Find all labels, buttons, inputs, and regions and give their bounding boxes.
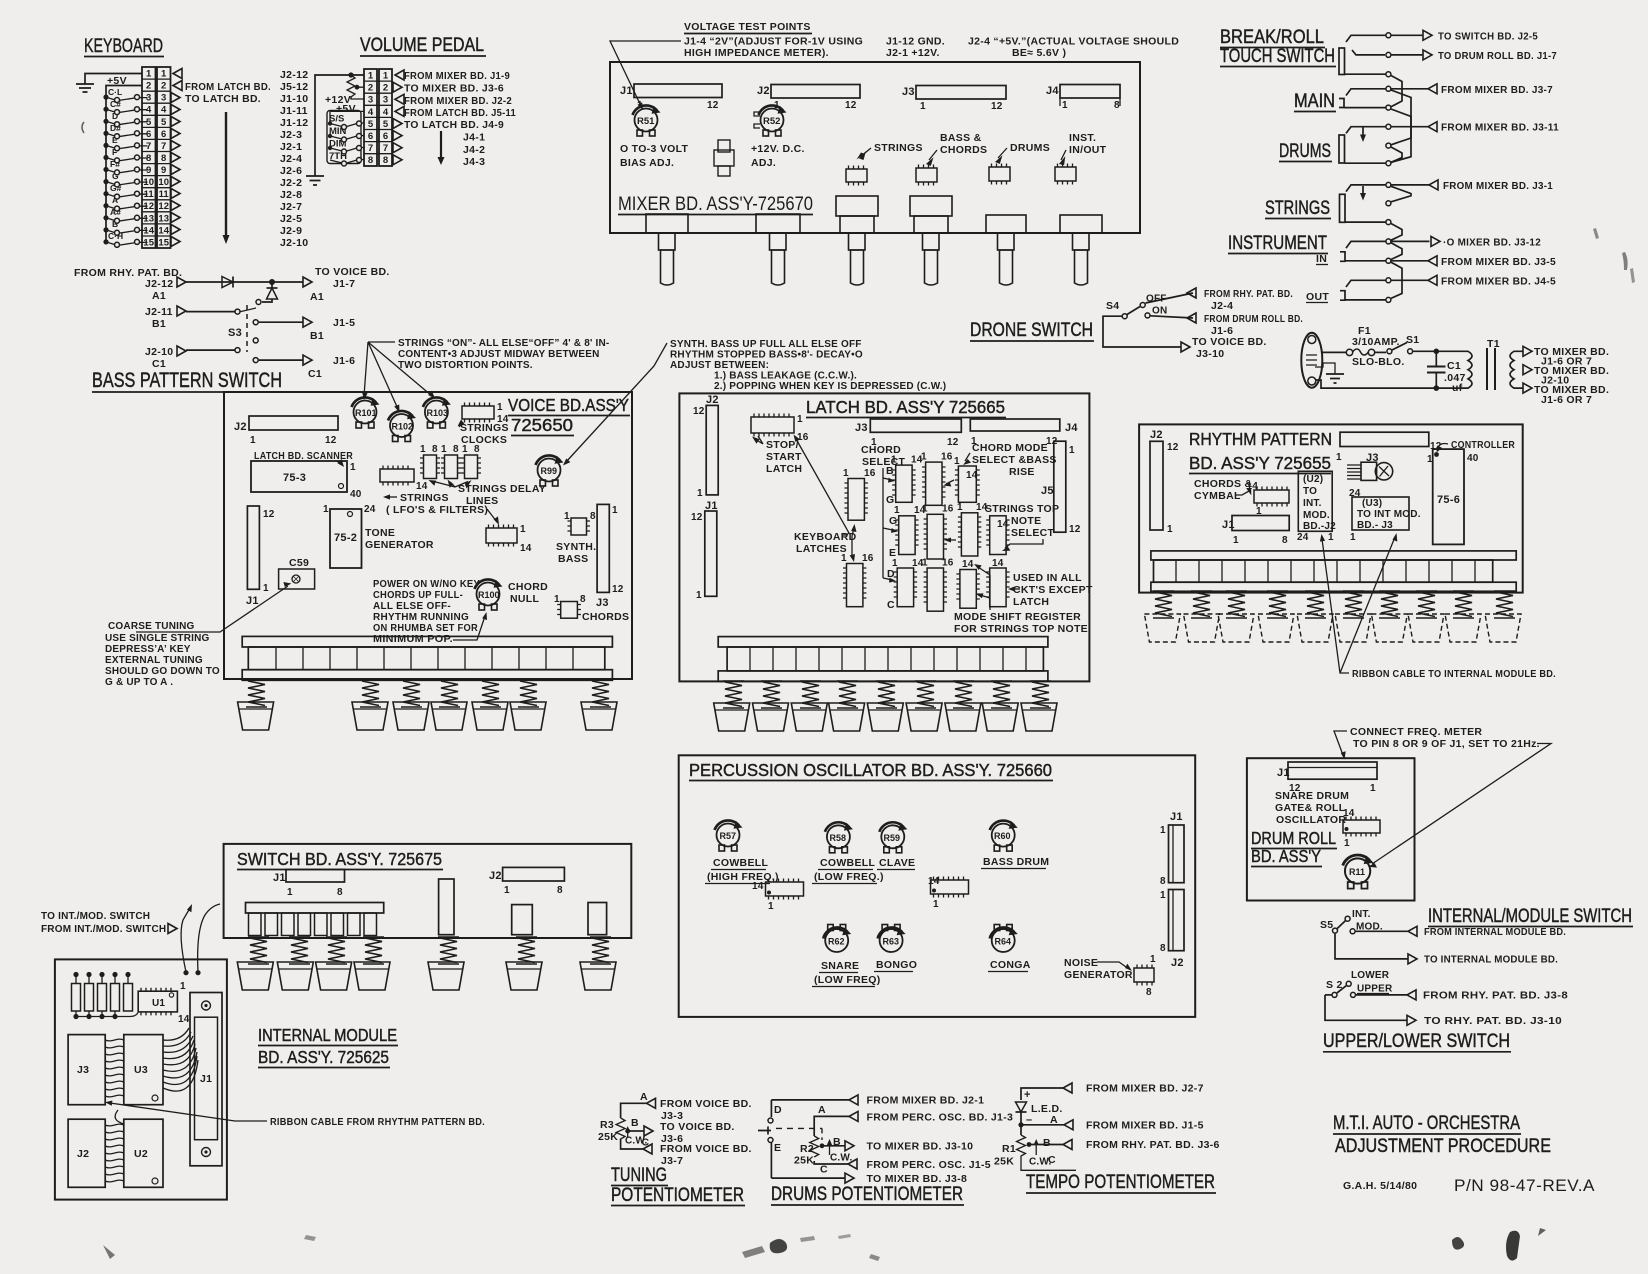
svg-text:8: 8 <box>368 155 373 166</box>
voice board title <box>508 395 630 436</box>
percussion oscillator board outline <box>679 755 1195 1017</box>
svg-text:15: 15 <box>158 237 169 248</box>
chord select IC G/E <box>889 505 926 559</box>
svg-text:12: 12 <box>693 406 705 417</box>
strings top note IC b <box>986 516 1009 555</box>
svg-text:14: 14 <box>158 225 169 236</box>
svg-text:J2-10: J2-10 <box>145 346 173 358</box>
used in all ckts IC b <box>986 558 1009 607</box>
jack row arrows <box>1423 30 1440 285</box>
switch S1 <box>1387 334 1436 354</box>
U2 ribbon box <box>1297 471 1336 543</box>
chord select IC B/G <box>886 455 923 507</box>
CHORDS & CYMBAL label <box>1194 478 1255 502</box>
J3 connector block <box>68 1035 105 1105</box>
svg-text:A1: A1 <box>310 291 324 303</box>
svg-text:ADJUSTMENT PROCEDURE: ADJUSTMENT PROCEDURE <box>1335 1136 1551 1157</box>
instrument jacks <box>1228 233 1345 303</box>
potentiometer +12V on volume pedal <box>325 75 364 106</box>
drum roll IC <box>1343 808 1380 849</box>
svg-text:J2: J2 <box>489 870 502 882</box>
svg-text:9: 9 <box>161 165 166 176</box>
svg-text:1: 1 <box>1427 454 1433 465</box>
BREAK/ROLL TOUCH SWITCH titles <box>1220 27 1336 67</box>
mixer board title <box>618 194 813 215</box>
svg-text:LOWER: LOWER <box>1351 970 1390 981</box>
DRUMS POTENTIOMETER title <box>771 1184 964 1205</box>
svg-text:G.A.H. 5/14/80: G.A.H. 5/14/80 <box>1343 1180 1417 1192</box>
75-3 chip <box>251 461 362 500</box>
svg-text:J3: J3 <box>855 422 868 434</box>
leader stop/start to keyboard latch IC <box>794 435 850 536</box>
switch S2 <box>1325 970 1393 997</box>
CHORD MODE SELECT & BASS RISE label <box>963 442 1057 478</box>
KEYBOARD section title <box>84 36 164 57</box>
svg-text:MOD.: MOD. <box>1303 510 1330 521</box>
svg-text:J3-10: J3-10 <box>1196 348 1224 360</box>
svg-text:TO MIXER BD. J3-6: TO MIXER BD. J3-6 <box>404 83 504 95</box>
svg-text:FROM PERC. OSC. BD. J1-3: FROM PERC. OSC. BD. J1-3 <box>867 1112 1014 1124</box>
svg-text:RISE: RISE <box>1009 466 1035 478</box>
svg-text:FROM MIXER BD. J3-1: FROM MIXER BD. J3-1 <box>1443 180 1553 192</box>
svg-text:12: 12 <box>1430 441 1442 452</box>
svg-text:BONGO: BONGO <box>876 959 917 971</box>
leader from coarse tuning note to C59 <box>136 582 292 632</box>
trimmer R63 <box>878 925 906 953</box>
latch board feet <box>714 703 1057 731</box>
svg-text:1.) BASS LEAKAGE (C.C.W.).: 1.) BASS LEAKAGE (C.C.W.). <box>714 371 857 382</box>
svg-text:CYMBAL: CYMBAL <box>1194 490 1241 502</box>
keyboard row labels <box>185 69 308 249</box>
svg-text:FROM RHY. PAT. BD.: FROM RHY. PAT. BD. <box>1204 288 1293 300</box>
svg-text:BASS: BASS <box>558 553 588 565</box>
BASS & CHORDS IC label <box>926 132 987 166</box>
svg-text:J5-12: J5-12 <box>280 81 308 93</box>
rhythm board title <box>1189 429 1332 474</box>
diode D (series, A1 line) <box>222 277 233 288</box>
svg-text:SNARE: SNARE <box>821 960 859 972</box>
svg-text:14: 14 <box>962 559 974 570</box>
svg-text:POTENTIOMETER: POTENTIOMETER <box>611 1185 744 1206</box>
LFO FILTER IC (center) <box>486 524 532 554</box>
svg-text:FROM MIXER BD. J3-11: FROM MIXER BD. J3-11 <box>1441 122 1559 134</box>
break/roll jack <box>1339 48 1345 75</box>
svg-text:12: 12 <box>991 101 1003 112</box>
STOP/START LATCH IC <box>751 414 809 444</box>
jack contact circles <box>1386 33 1391 303</box>
tempo pot R1 <box>994 1135 1220 1170</box>
SNARE LOW FREQ label <box>812 960 881 987</box>
svg-text:B1: B1 <box>152 318 166 330</box>
svg-text:A: A <box>640 1091 648 1103</box>
TEMPO POTENTIOMETER title <box>1026 1172 1216 1193</box>
svg-text:1: 1 <box>891 455 897 466</box>
svg-text:40: 40 <box>350 489 362 500</box>
svg-text:12: 12 <box>158 201 169 212</box>
mode shift IC 2 (middle col) <box>922 504 954 560</box>
svg-text:FOR STRINGS TOP NOTE: FOR STRINGS TOP NOTE <box>954 623 1088 635</box>
latch connector J1 <box>691 500 718 601</box>
svg-text:J2-4 “+5V.”(ACTUAL VOLTAGE: J2-4 “+5V.”(ACTUAL VOLTAGE SHOULD <box>968 36 1179 48</box>
svg-text:16: 16 <box>862 553 874 564</box>
svg-text:BD. ASS'Y: BD. ASS'Y <box>1251 846 1321 866</box>
LED junction <box>1018 1112 1203 1135</box>
drums pot top wire <box>771 1099 849 1101</box>
svg-text:8: 8 <box>432 444 438 455</box>
svg-text:INT.: INT. <box>1352 909 1371 920</box>
svg-text:J4-3: J4-3 <box>463 156 485 168</box>
svg-text:BD. ASS'Y 725655: BD. ASS'Y 725655 <box>1189 453 1331 473</box>
ribbon cable note <box>1320 533 1556 680</box>
slider pot 3 <box>836 196 878 285</box>
svg-text:BD. ASS'Y. 725625: BD. ASS'Y. 725625 <box>258 1047 389 1067</box>
volume pedal connector (two columns, 8 pins) <box>364 69 392 166</box>
svg-text:1: 1 <box>554 594 560 605</box>
transformer T1 <box>1454 338 1528 390</box>
svg-text:TWO DISTORTION POINTS.: TWO DISTORTION POINTS. <box>398 360 533 371</box>
S3 middle contact <box>253 338 258 343</box>
svg-text:CHORD MODE: CHORD MODE <box>972 442 1048 454</box>
svg-text:12: 12 <box>707 100 719 111</box>
perc IC 2 <box>928 876 969 910</box>
drum roll board outline <box>1247 758 1415 900</box>
svg-text:11: 11 <box>159 189 170 200</box>
strings jack <box>1265 194 1345 222</box>
svg-text:R99: R99 <box>541 466 558 476</box>
svg-text:16: 16 <box>942 504 954 515</box>
svg-text:( LFO'S & FILTERS): ( LFO'S & FILTERS) <box>386 504 488 516</box>
svg-text:J2-6: J2-6 <box>280 165 302 177</box>
keyboard latch IC 1 <box>843 468 876 520</box>
top power wire to transformer <box>1436 350 1454 352</box>
S5 to FROM INTERNAL MODULE BD <box>1356 926 1566 938</box>
svg-text:J2-11: J2-11 <box>145 306 173 318</box>
wire A1 <box>186 281 303 283</box>
svg-text:8: 8 <box>1114 100 1120 111</box>
svg-text:12: 12 <box>1167 442 1179 453</box>
svg-text:C59: C59 <box>289 557 309 569</box>
junction dots on power rail <box>1434 349 1440 355</box>
svg-text:1: 1 <box>504 885 510 896</box>
svg-text:1: 1 <box>287 887 293 898</box>
noise generator IC <box>1134 954 1156 998</box>
switch plunger tall <box>439 879 454 935</box>
svg-text:NULL: NULL <box>510 593 539 605</box>
svg-text:1: 1 <box>1150 954 1156 965</box>
chord mode IC <box>954 456 980 502</box>
svg-text:1: 1 <box>1167 524 1173 535</box>
voice board mounting rail <box>242 636 612 680</box>
svg-text:CONGA: CONGA <box>990 959 1031 971</box>
svg-text:DRUMS POTENTIOMETER: DRUMS POTENTIOMETER <box>771 1184 963 1205</box>
svg-text:FROM MIXER BD. J2-1: FROM MIXER BD. J2-1 <box>867 1095 985 1107</box>
slider pot 5 <box>986 215 1026 285</box>
svg-text:BIAS ADJ.: BIAS ADJ. <box>620 157 674 169</box>
switch bd connector J2 <box>489 867 564 896</box>
svg-text:J3: J3 <box>596 597 609 609</box>
svg-text:EXTERNAL TUNING: EXTERNAL TUNING <box>105 655 203 666</box>
drone output arrow to voice bd <box>1181 336 1267 360</box>
svg-text:1: 1 <box>180 981 186 992</box>
DRONE SWITCH title <box>970 320 1094 341</box>
svg-text:1: 1 <box>933 899 939 910</box>
svg-text:RIBBON CABLE FROM RHYTHM PATTE: RIBBON CABLE FROM RHYTHM PATTERN BD. <box>270 1116 485 1128</box>
vertical diode to switch <box>256 282 278 305</box>
svg-text:IN/OUT: IN/OUT <box>1069 144 1107 156</box>
drum roll connector J1 <box>1277 762 1377 794</box>
svg-text:MODE SHIFT REGISTER: MODE SHIFT REGISTER <box>954 611 1081 623</box>
J2 connector block <box>68 1119 105 1187</box>
svg-text:G: G <box>889 515 897 527</box>
svg-text:TOUCH SWITCH: TOUCH SWITCH <box>1220 46 1335 67</box>
svg-text:J1: J1 <box>273 872 286 884</box>
svg-text:FROM VOICE BD.: FROM VOICE BD. <box>660 1143 752 1155</box>
trimmer R64 <box>990 925 1018 953</box>
svg-text:TUNING: TUNING <box>611 1165 667 1186</box>
COARSE TUNING note <box>105 621 220 688</box>
small trimmer part between R51 and R52 <box>714 140 734 176</box>
int/mod switch wires labels <box>41 904 220 975</box>
MODE SHIFT REGISTER label <box>954 564 1088 635</box>
switch S4 <box>1106 294 1167 319</box>
INST IN/OUT IC label <box>1059 132 1107 165</box>
jack normalling bus <box>1391 76 1411 299</box>
svg-text:FROM RHY. PAT. BD. J3-6: FROM RHY. PAT. BD. J3-6 <box>1086 1139 1220 1151</box>
svg-text:6: 6 <box>368 131 373 142</box>
svg-text:DRUMS: DRUMS <box>1010 142 1050 154</box>
mode shift IC 1 (middle col) <box>921 452 953 506</box>
svg-text:1: 1 <box>1160 890 1166 901</box>
svg-text:12: 12 <box>263 509 275 520</box>
svg-text:R51: R51 <box>637 116 655 127</box>
svg-text:8: 8 <box>383 155 388 166</box>
svg-text:J2: J2 <box>77 1148 89 1160</box>
svg-text:1: 1 <box>612 505 618 516</box>
svg-text:VOLTAGE TEST POINTS: VOLTAGE TEST POINTS <box>684 21 811 33</box>
svg-text:TO PIN 8 OR 9 OF J1, SET TO: TO PIN 8 OR 9 OF J1, SET TO 21Hz. <box>1353 738 1540 750</box>
ground under volume pedal bus <box>306 176 324 185</box>
svg-text:R60: R60 <box>994 831 1011 841</box>
perc IC 1 <box>752 879 804 913</box>
svg-text:VOICE BD.ASS'Y: VOICE BD.ASS'Y <box>508 395 629 415</box>
switch bd connector J1 <box>273 870 345 899</box>
UPPER/LOWER SWITCH title <box>1323 1031 1511 1052</box>
ribbon J3-U3 <box>105 1039 124 1097</box>
svg-text:75-2: 75-2 <box>334 532 357 544</box>
svg-text:13: 13 <box>158 213 169 224</box>
svg-text:GENERATOR: GENERATOR <box>365 539 434 551</box>
svg-text:B: B <box>1043 1137 1051 1149</box>
svg-text:J2: J2 <box>1171 957 1184 969</box>
svg-text:1: 1 <box>1336 452 1342 463</box>
svg-text:12: 12 <box>691 512 703 523</box>
leader minimum pop to R100 <box>453 612 487 640</box>
svg-text:U2: U2 <box>134 1148 148 1160</box>
drawing credits <box>1343 1176 1595 1195</box>
slider pot 2 <box>756 214 800 285</box>
ribbon cable from rhythm pattern note <box>105 1101 485 1129</box>
svg-text:1: 1 <box>1160 825 1166 836</box>
svg-text:G & UP TO A .: G & UP TO A . <box>105 677 173 688</box>
svg-text:+: + <box>1024 1089 1031 1101</box>
svg-text:INSTRUMENT: INSTRUMENT <box>1228 233 1327 254</box>
svg-text:J1: J1 <box>246 595 259 607</box>
svg-text:R62: R62 <box>828 937 845 947</box>
trimmer R52 <box>754 105 787 136</box>
svg-text:25K: 25K <box>598 1131 618 1143</box>
svg-text:8: 8 <box>1160 876 1166 887</box>
volume pedal switch block S/S MIN DIM 7TH <box>327 111 364 167</box>
svg-text:1: 1 <box>497 402 503 413</box>
svg-text:J2-4: J2-4 <box>1211 300 1233 312</box>
svg-text:2: 2 <box>161 81 166 92</box>
trimmer R99 <box>536 455 564 486</box>
svg-text:16: 16 <box>942 558 954 569</box>
svg-text:12: 12 <box>845 100 857 111</box>
svg-text:BASS &: BASS & <box>940 132 982 144</box>
volume pedal left bus wire <box>315 72 364 176</box>
node A1 output arrow <box>303 277 312 287</box>
svg-text:SELECT &BASS: SELECT &BASS <box>972 454 1057 466</box>
svg-text:FROM MIXER BD. J1-5: FROM MIXER BD. J1-5 <box>1086 1120 1204 1132</box>
svg-text:725650: 725650 <box>511 415 573 435</box>
svg-text:8: 8 <box>474 444 480 455</box>
CHORD SELECT label <box>861 444 906 583</box>
svg-text:FROM MIXER BD. J3-7: FROM MIXER BD. J3-7 <box>1441 84 1553 96</box>
svg-text:CONTENT•3 ADJUST MIDWAY BETWEE: CONTENT•3 ADJUST MIDWAY BETWEEN <box>398 349 600 360</box>
slider pot 1 <box>646 214 688 285</box>
svg-text:C.W.: C.W. <box>830 1153 852 1164</box>
svg-text:R63: R63 <box>883 937 900 947</box>
svg-text:1: 1 <box>843 468 849 479</box>
svg-text:INT.: INT. <box>1303 498 1322 509</box>
trimmer R62 <box>823 925 851 953</box>
svg-text:1: 1 <box>921 452 927 463</box>
svg-text:TO SWITCH BD. J2-5: TO SWITCH BD. J2-5 <box>1438 31 1538 43</box>
svg-text:MAIN: MAIN <box>1294 91 1335 112</box>
svg-text:TO: TO <box>1303 486 1317 497</box>
rhythm board mounting rail <box>1151 551 1516 591</box>
voice connector J1 <box>246 506 275 607</box>
svg-text:14: 14 <box>752 881 764 892</box>
rhythm pattern board outline <box>1139 424 1523 592</box>
chord select IC D/C <box>887 558 924 611</box>
S2 common to TO RHY PAT BD J3-10 <box>1325 995 1562 1027</box>
svg-text:1: 1 <box>368 71 374 82</box>
svg-text:75-6: 75-6 <box>1437 494 1460 506</box>
svg-text:J1-12 GND.: J1-12 GND. <box>886 36 945 48</box>
svg-text:J1: J1 <box>200 1073 212 1085</box>
TEMPO pot top wire <box>1021 1083 1204 1102</box>
svg-text:S1: S1 <box>1406 334 1419 346</box>
voice connector J2 <box>234 416 338 446</box>
svg-text:J2-5: J2-5 <box>280 213 302 225</box>
STRINGS IC (mixer) <box>846 166 867 186</box>
svg-text:TO INTERNAL MODULE BD.: TO INTERNAL MODULE BD. <box>1424 955 1558 966</box>
svg-text:INST.: INST. <box>1069 132 1096 144</box>
svg-text:TONE: TONE <box>365 527 395 539</box>
svg-text:8: 8 <box>1282 535 1288 546</box>
svg-text:BD.-J2: BD.-J2 <box>1303 521 1336 532</box>
bias adj labels <box>620 143 805 169</box>
svg-text:TO VOICE BD.: TO VOICE BD. <box>315 266 390 278</box>
svg-text:·O MIXER BD. J3-12: ·O MIXER BD. J3-12 <box>1443 237 1541 249</box>
svg-text:HIGH IMPEDANCE METER).: HIGH IMPEDANCE METER). <box>684 47 829 59</box>
snare drum gate label <box>1275 790 1349 826</box>
svg-text:ON: ON <box>1152 306 1167 317</box>
rhythm board feet (dashed) <box>1144 614 1521 642</box>
svg-text:R52: R52 <box>763 116 780 127</box>
svg-text:R1: R1 <box>1002 1143 1016 1155</box>
slider pot 4 <box>910 196 952 285</box>
STRINGS IC label <box>857 142 923 160</box>
STRINGS TOP NOTE SELECT label <box>985 503 1059 551</box>
svg-text:SELECT: SELECT <box>1011 527 1055 539</box>
svg-text:3: 3 <box>161 93 166 104</box>
svg-text:1: 1 <box>1344 838 1350 849</box>
junction on A1 line <box>269 279 275 285</box>
ground from plug <box>1315 363 1344 383</box>
fuse F1 <box>1322 325 1405 368</box>
svg-text:STOP/: STOP/ <box>766 439 799 451</box>
svg-text:2: 2 <box>383 83 388 94</box>
switch bank frame <box>246 903 384 936</box>
svg-text:5: 5 <box>161 117 167 128</box>
svg-text:FROM INTERNAL MODULE BD.: FROM INTERNAL MODULE BD. <box>1424 927 1566 938</box>
svg-text:1: 1 <box>350 462 356 473</box>
trimmer R101 <box>352 397 380 428</box>
svg-text:STRINGS TOP: STRINGS TOP <box>985 503 1059 515</box>
svg-text:J2: J2 <box>1150 429 1163 441</box>
svg-text:TO VOICE BD.: TO VOICE BD. <box>660 1121 735 1133</box>
latch connector J2 <box>693 394 719 499</box>
switch board springs <box>248 937 611 964</box>
svg-text:5: 5 <box>368 119 374 130</box>
svg-text:S3: S3 <box>228 327 242 339</box>
svg-text:ADJUST BETWEEN:: ADJUST BETWEEN: <box>670 360 769 371</box>
svg-text:A: A <box>818 1104 826 1116</box>
svg-text:1: 1 <box>420 444 426 455</box>
connect freq meter note <box>1334 726 1551 868</box>
small arrows middle column <box>943 480 956 543</box>
svg-text:RHYTHM PATTERN: RHYTHM PATTERN <box>1189 429 1332 449</box>
svg-text:1: 1 <box>1370 783 1376 794</box>
leader from synth bass note to R99 <box>563 343 667 466</box>
BASS DRUM label <box>981 856 1049 869</box>
DRUMS IC (mixer) <box>989 164 1010 185</box>
svg-text:STRINGS: STRINGS <box>460 422 509 434</box>
svg-text:1: 1 <box>1350 532 1356 543</box>
BASS & CHORDS IC (mixer) <box>916 165 937 186</box>
svg-text:4: 4 <box>383 107 389 118</box>
svg-text:J2-7: J2-7 <box>280 201 302 213</box>
trimmer R57 <box>715 820 743 851</box>
svg-text:C1: C1 <box>308 368 322 380</box>
svg-text:J2: J2 <box>234 421 247 433</box>
svg-text:14: 14 <box>992 558 1004 569</box>
transformer output labels <box>1534 346 1609 406</box>
mixer connector J4 <box>1046 85 1120 112</box>
transformer secondary output arrows <box>1523 346 1532 393</box>
switch board outline <box>224 844 632 938</box>
SYNTH BASS label <box>556 541 596 565</box>
svg-text:(U3): (U3) <box>1362 498 1382 509</box>
+5V feed <box>330 103 364 123</box>
svg-text:STRINGS: STRINGS <box>1265 198 1330 219</box>
75-6 chip <box>1427 449 1479 544</box>
svg-text:J4-1: J4-1 <box>463 132 485 144</box>
S5 common to TO INTERNAL MODULE BD <box>1335 934 1558 966</box>
